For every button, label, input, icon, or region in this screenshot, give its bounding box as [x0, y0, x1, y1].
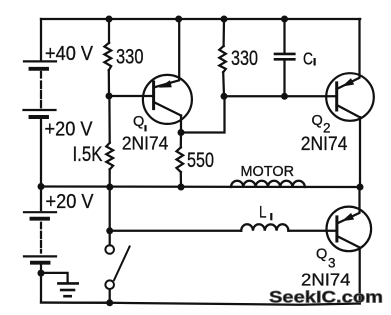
wire collector node down to R4 — [180, 133, 182, 148]
svg-text:I.5K: I.5K — [73, 143, 103, 166]
wire L1 rail right segment (Q3 base) — [288, 230, 337, 232]
node top rail R1 — [106, 16, 113, 23]
wire left rail top segment — [40, 19, 42, 61]
svg-text:330: 330 — [231, 47, 258, 70]
svg-text:C: C — [303, 49, 313, 69]
wire Q2 base rail — [224, 95, 336, 97]
transistor Q3 — [327, 187, 372, 251]
ground — [42, 273, 78, 296]
wire R2 to base rail — [222, 72, 225, 96]
svg-text:Q: Q — [312, 113, 323, 129]
svg-text:+20 V: +20 V — [45, 119, 94, 141]
svg-text:SeekIC.com: SeekIC.com — [269, 288, 383, 307]
wire from top rail to R1 — [108, 19, 110, 43]
wire Q1 base wire — [109, 95, 154, 97]
node top rail Q1 emitter — [175, 16, 182, 23]
svg-text:+40 V: +40 V — [45, 43, 94, 65]
battery B1 cell (+40V) — [24, 61, 56, 68]
svg-text:550: 550 — [187, 149, 214, 172]
wire left rail below tap — [40, 187, 42, 211]
battery B1 second cell — [24, 110, 56, 117]
wire motor rail — [41, 185, 360, 188]
wire top rail — [41, 18, 360, 20]
wire dashed battery link 2 — [40, 223, 42, 253]
svg-text:Q: Q — [133, 114, 144, 130]
capacitor C1 — [275, 54, 294, 59]
wire top rail to R2 — [222, 19, 225, 46]
svg-text:+20 V: +20 V — [46, 191, 95, 213]
svg-text:MOTOR: MOTOR — [241, 164, 295, 180]
node top rail C1 — [281, 16, 288, 23]
wire switch to bottom rail — [109, 289, 111, 303]
wire R3 to motor rail — [109, 169, 111, 187]
wire Q1 collector down — [180, 116, 182, 133]
wire dashed battery link — [40, 72, 42, 107]
node motor rail right — [357, 184, 364, 191]
wire top rail to C1 — [283, 19, 285, 53]
resistor 550 — [177, 147, 184, 172]
resistor 1.5K — [106, 143, 113, 170]
wire switch column to switch — [109, 231, 111, 245]
svg-text:2NI74: 2NI74 — [301, 269, 351, 289]
svg-text:L: L — [259, 204, 267, 222]
node ground tap junction — [38, 270, 45, 277]
resistor 330 left — [104, 43, 111, 70]
inductor L1 — [241, 224, 288, 230]
wire collector link to 330 node — [181, 96, 225, 132]
svg-text:2NI74: 2NI74 — [301, 134, 348, 155]
battery B2 second cell — [24, 256, 56, 262]
inductor motor winding — [231, 181, 305, 187]
wire left rail to bottom rail — [41, 273, 109, 303]
resistor 330 right — [219, 46, 226, 72]
wire Q3 collector to bottom rail — [359, 248, 361, 304]
transistor Q1 — [143, 19, 192, 124]
node left tap junction — [38, 183, 45, 190]
wire base node down to R3 — [108, 96, 111, 143]
node top rail R2 — [221, 16, 228, 23]
wire L1 rail left segment — [110, 230, 242, 232]
svg-text:2NI74: 2NI74 — [122, 134, 168, 154]
wire R1 to base node — [108, 70, 110, 96]
node motor rail switch column — [106, 184, 113, 191]
node L1 rail switch column — [106, 227, 113, 234]
node Q1 collector junction — [178, 129, 185, 136]
transistor Q2 — [326, 19, 374, 121]
node Q1 base node — [106, 93, 113, 100]
wire left rail middle segment — [40, 119, 42, 187]
wire Q2 collector down — [359, 117, 361, 187]
svg-text:Q: Q — [316, 247, 327, 263]
wire bottom rail — [41, 303, 360, 305]
svg-text:330: 330 — [116, 46, 144, 69]
node motor rail R4 — [178, 184, 185, 191]
switch S1 — [105, 245, 129, 289]
wire left rail bottom segment — [40, 265, 42, 273]
node base rail C1 — [281, 93, 288, 100]
node base rail R2 — [221, 93, 228, 100]
wire switch column between rails — [109, 187, 111, 231]
wire C1 to base rail — [283, 61, 285, 97]
battery B2 cell (+20V) — [24, 212, 56, 219]
node bottom rail switch — [106, 299, 113, 306]
wire R4 to motor rail — [180, 172, 182, 187]
